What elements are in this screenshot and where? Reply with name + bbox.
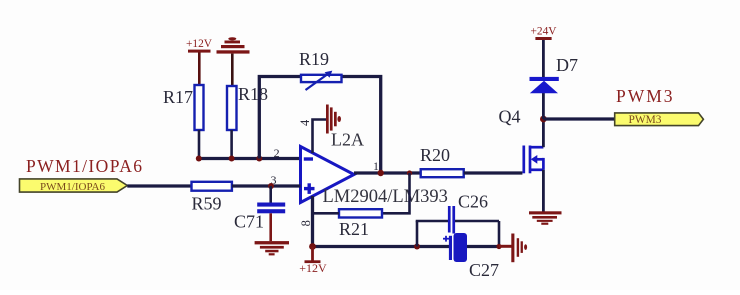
capacitor C26 <box>448 192 488 234</box>
wire pin 4 <box>313 120 327 154</box>
junction C71 branch <box>268 183 274 189</box>
wire C71 bottom lead <box>269 213 272 241</box>
power +24V <box>530 25 557 40</box>
earth ground (below Q4) <box>529 211 562 225</box>
wire C71 top lead <box>269 186 272 203</box>
svg-text:PWM3: PWM3 <box>616 86 675 106</box>
earth ground (right of C27, sideways) <box>511 234 527 263</box>
wire C26 right vertical <box>498 221 501 247</box>
svg-text:R59: R59 <box>192 194 222 214</box>
svg-text:R21: R21 <box>339 219 369 239</box>
power +12V (bottom) <box>299 247 327 275</box>
wire D7 to +24V <box>542 40 545 77</box>
svg-text:LM2904/LM393: LM2904/LM393 <box>323 187 448 207</box>
wire D7 to drain <box>542 93 545 119</box>
op-amp U1 <box>301 147 355 203</box>
svg-text:Q4: Q4 <box>499 107 521 127</box>
ground stub wire <box>499 245 512 248</box>
junction C26 branch <box>414 244 420 250</box>
wire C26 top left <box>416 220 449 223</box>
junction at feedback/pin2 <box>256 156 262 162</box>
wire pin3 net <box>232 184 301 187</box>
power bar symbol at pin 4 <box>326 105 341 134</box>
svg-text:R19: R19 <box>299 49 329 69</box>
port banner PWM1/IOPA6 <box>20 179 128 193</box>
junction ground stub <box>496 244 501 249</box>
wire C26 top right <box>455 220 499 223</box>
svg-text:C71: C71 <box>234 212 264 232</box>
power +12V (top) <box>186 38 213 85</box>
junction R21 branch <box>407 170 412 175</box>
svg-text:4: 4 <box>298 119 312 126</box>
svg-text:D7: D7 <box>556 55 578 75</box>
capacitor C27 (polarized) <box>443 233 499 280</box>
resistor R19 (variable) <box>299 49 342 90</box>
capacitor C71 <box>234 203 285 232</box>
svg-text:1: 1 <box>373 159 379 173</box>
svg-text:2: 2 <box>274 146 280 160</box>
junction output/feedback <box>378 170 384 176</box>
wire pin 8 <box>311 196 314 247</box>
wire R17 to pin2 net <box>198 130 201 159</box>
diode D7 <box>530 55 579 93</box>
wire +12V rail (pin8 bottom) <box>313 245 450 248</box>
earth ground (below C71) <box>255 241 289 255</box>
svg-text:PWM1/IOPA6: PWM1/IOPA6 <box>26 156 143 176</box>
transistor Q4 (N-MOSFET) <box>499 107 544 174</box>
wire R21 right lead <box>382 173 410 213</box>
svg-text:+24V: +24V <box>530 25 557 37</box>
port banner PWM3 <box>615 113 704 126</box>
wire Q4 source down <box>542 170 545 212</box>
wire PWM1 port to R59 <box>127 184 191 187</box>
resistor R17 <box>163 85 204 130</box>
resistor R21 <box>339 209 382 239</box>
svg-text:C26: C26 <box>458 192 488 212</box>
resistor R20 <box>420 145 464 177</box>
wire op-amp output <box>354 171 421 174</box>
resistor R59 <box>192 182 232 214</box>
junction Q4 drain / PWM3 <box>540 116 547 123</box>
svg-text:PWM1/IOPA6: PWM1/IOPA6 <box>40 181 105 193</box>
wire R20 to Q4 gate <box>464 171 523 174</box>
earth ground (top, above R18) <box>217 37 250 87</box>
wire R18 to pin2 net <box>230 130 233 159</box>
svg-text:+12V: +12V <box>186 38 213 50</box>
wire feedback loop <box>259 77 380 174</box>
junction at R18/pin2 <box>229 156 235 162</box>
resistor R18 <box>227 84 268 130</box>
svg-text:+12V: +12V <box>299 261 327 275</box>
wire C26 left vertical <box>416 221 419 247</box>
wire C27 to ground node <box>467 245 499 248</box>
wire Q4 drain up <box>542 119 545 147</box>
junction at R17/pin2 <box>196 156 202 162</box>
wire R21 left lead <box>313 212 340 215</box>
svg-text:C27: C27 <box>469 260 499 280</box>
svg-text:L2A: L2A <box>331 130 364 150</box>
junction pin8/rail <box>309 243 316 250</box>
svg-text:R17: R17 <box>163 87 193 107</box>
svg-text:R20: R20 <box>420 145 450 165</box>
wire Q4 to PWM3 port <box>543 117 614 120</box>
wire pin2 net <box>199 157 301 160</box>
svg-text:PWM3: PWM3 <box>629 114 662 126</box>
svg-text:R18: R18 <box>238 84 268 104</box>
